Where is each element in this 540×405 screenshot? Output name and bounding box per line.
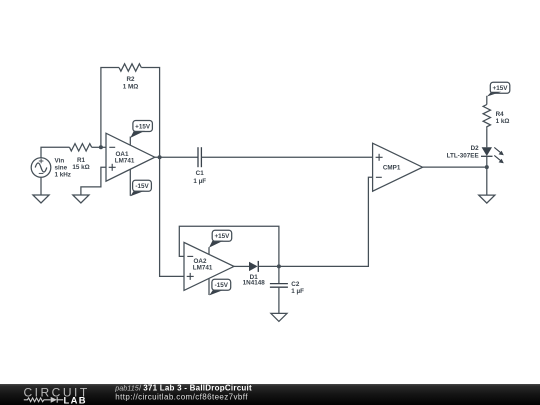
power flag -15V on OA2 (209, 279, 231, 296)
svg-text:+15V: +15V (214, 233, 230, 240)
logo resistor-diode icon (24, 397, 63, 403)
wire OA2 feedback loop (179, 226, 279, 266)
svg-text:CMP1: CMP1 (383, 165, 401, 172)
wire D1 to node (258, 265, 279, 267)
wire OA2 output to D1 (234, 265, 249, 267)
wire V1 bottom stem (40, 177, 42, 195)
svg-text:R4: R4 (496, 111, 505, 118)
ground under LED node (479, 195, 495, 203)
power flag -15V on OA1 (130, 170, 151, 197)
voltage source V1 Vin (31, 157, 71, 178)
wire OA1 output down to OA2 + input (160, 157, 184, 276)
svg-text:C1: C1 (196, 170, 205, 177)
ground under C2 (271, 313, 287, 321)
svg-text:1 MΩ: 1 MΩ (123, 83, 139, 90)
svg-text:http://circuitlab.com/cf86teez: http://circuitlab.com/cf86teez7vbff (115, 392, 248, 401)
svg-text:+15V: +15V (493, 85, 509, 92)
ground under OA1 input (73, 195, 89, 203)
svg-text:LM741: LM741 (115, 157, 135, 164)
ground under V1 (33, 195, 49, 203)
svg-text:15 kΩ: 15 kΩ (72, 164, 89, 171)
power flag +15V on OA1 (130, 121, 152, 145)
svg-text:R2: R2 (126, 76, 135, 83)
node: R1 / R2 / OA1 inverting input (99, 145, 103, 149)
resistor R4 (483, 105, 509, 129)
diode D1 (243, 261, 266, 287)
wire node up to R2 (101, 68, 119, 148)
wire OA1 output to C1 (155, 156, 198, 158)
power flag +15V above R4 (487, 82, 510, 104)
footer title line (114, 383, 252, 392)
wire R4 to LED (486, 129, 488, 148)
svg-text:-15V: -15V (135, 183, 149, 190)
op-amp OA2 (184, 242, 234, 290)
capacitor C1 (193, 147, 206, 185)
svg-text:sine: sine (55, 164, 68, 171)
node: D1 / C2 / feedback / CMP1 (277, 264, 281, 268)
svg-text:LTL-307EE: LTL-307EE (447, 153, 479, 160)
svg-text:C2: C2 (291, 281, 300, 288)
wire R1 to node (92, 146, 106, 148)
node: CMP1 output / LED / ground (485, 165, 489, 169)
power flag +15V on OA2 (209, 230, 232, 254)
node: OA1 output (158, 155, 162, 159)
svg-text:LAB: LAB (64, 395, 87, 405)
svg-text:1N4148: 1N4148 (243, 280, 266, 287)
svg-text:LM741: LM741 (193, 264, 213, 271)
wire node to CMP1 - input (279, 177, 373, 266)
svg-text:-15V: -15V (215, 282, 229, 289)
wire OA1 non-inverting input to ground (81, 167, 106, 195)
svg-text:R1: R1 (77, 157, 86, 164)
LED D2 (447, 145, 504, 163)
svg-text:pab115: pab115 (114, 383, 139, 392)
wire CMP1 output to LED column (423, 166, 487, 168)
wire V1 top stem (41, 147, 70, 157)
svg-text:1 kΩ: 1 kΩ (496, 118, 510, 125)
comparator CMP1 (373, 143, 423, 191)
svg-text:D2: D2 (471, 145, 480, 152)
wire C1 to CMP1 + input (201, 156, 372, 158)
capacitor C2 (270, 266, 304, 313)
svg-text:+15V: +15V (135, 123, 151, 130)
footer bar (0, 384, 540, 405)
svg-text:371 Lab 3 - BallDropCircuit: 371 Lab 3 - BallDropCircuit (143, 383, 252, 392)
svg-text:1 µF: 1 µF (193, 178, 206, 185)
svg-text:1 µF: 1 µF (291, 288, 304, 295)
op-amp OA1 (106, 133, 155, 181)
resistor R1 (70, 144, 92, 171)
wire R2 to output node (141, 68, 159, 158)
svg-text:1 kHz: 1 kHz (55, 171, 71, 178)
wire LED to ground (486, 156, 488, 195)
svg-text:Vin: Vin (55, 157, 65, 164)
resistor R2 (119, 64, 141, 91)
